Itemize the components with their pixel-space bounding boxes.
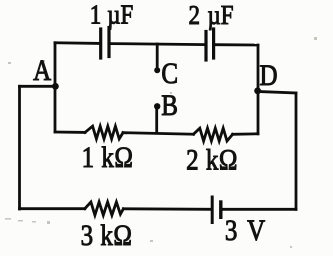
- wire from right rail to node D: [258, 92, 296, 94]
- resistor R3 3kOhm zigzag: [85, 202, 124, 215]
- svg-text:3 kΩ: 3 kΩ: [81, 218, 133, 252]
- svg-text:2 kΩ: 2 kΩ: [186, 142, 238, 176]
- wire top-middle segment: [111, 44, 205, 45]
- node C stub wire: [156, 44, 159, 68]
- svg-text:B: B: [161, 88, 178, 122]
- wire bottom-middle segment: [123, 207, 210, 210]
- wire middle-right segment: [233, 132, 258, 135]
- wire top-right segment: [215, 43, 258, 46]
- node A junction dot: [52, 83, 59, 90]
- wire top-left segment: [55, 41, 99, 44]
- wire left outer vertical rail: [18, 86, 21, 209]
- svg-text:A: A: [33, 53, 51, 87]
- wire left vertical from top to middle row: [54, 43, 57, 132]
- wire right outer vertical rail: [295, 93, 298, 209]
- svg-text:C: C: [161, 56, 178, 90]
- node D junction dot: [254, 87, 261, 94]
- svg-text:1µF: 1µF: [90, 0, 134, 30]
- wire middle-left segment: [55, 131, 85, 134]
- capacitor C1 1uF right plate: [107, 28, 110, 57]
- wire middle-center segment: [123, 133, 194, 135]
- battery B1 long plate: [211, 197, 214, 223]
- node C terminal dot: [154, 67, 160, 73]
- battery B1 short plate: [219, 202, 222, 217]
- wire right vertical from top through D to middle row: [257, 45, 260, 134]
- svg-text:3 V: 3 V: [225, 213, 267, 247]
- wire bottom-left segment: [20, 207, 85, 210]
- node B stub wire: [155, 108, 158, 133]
- resistor R2 2kOhm zigzag: [194, 128, 233, 141]
- svg-text:D: D: [259, 58, 277, 92]
- svg-text:1 kΩ: 1 kΩ: [82, 140, 134, 174]
- node B terminal dot: [154, 103, 160, 109]
- resistor R1 1kOhm zigzag: [85, 126, 123, 139]
- svg-text:2µF: 2µF: [189, 0, 234, 30]
- capacitor C1 1uF left plate: [99, 29, 102, 58]
- wire from node A to left outer rail: [20, 85, 56, 88]
- capacitor C2 2uF left plate: [204, 32, 207, 61]
- capacitor C2 2uF right plate: [212, 29, 215, 58]
- wire bottom-right segment: [222, 208, 296, 211]
